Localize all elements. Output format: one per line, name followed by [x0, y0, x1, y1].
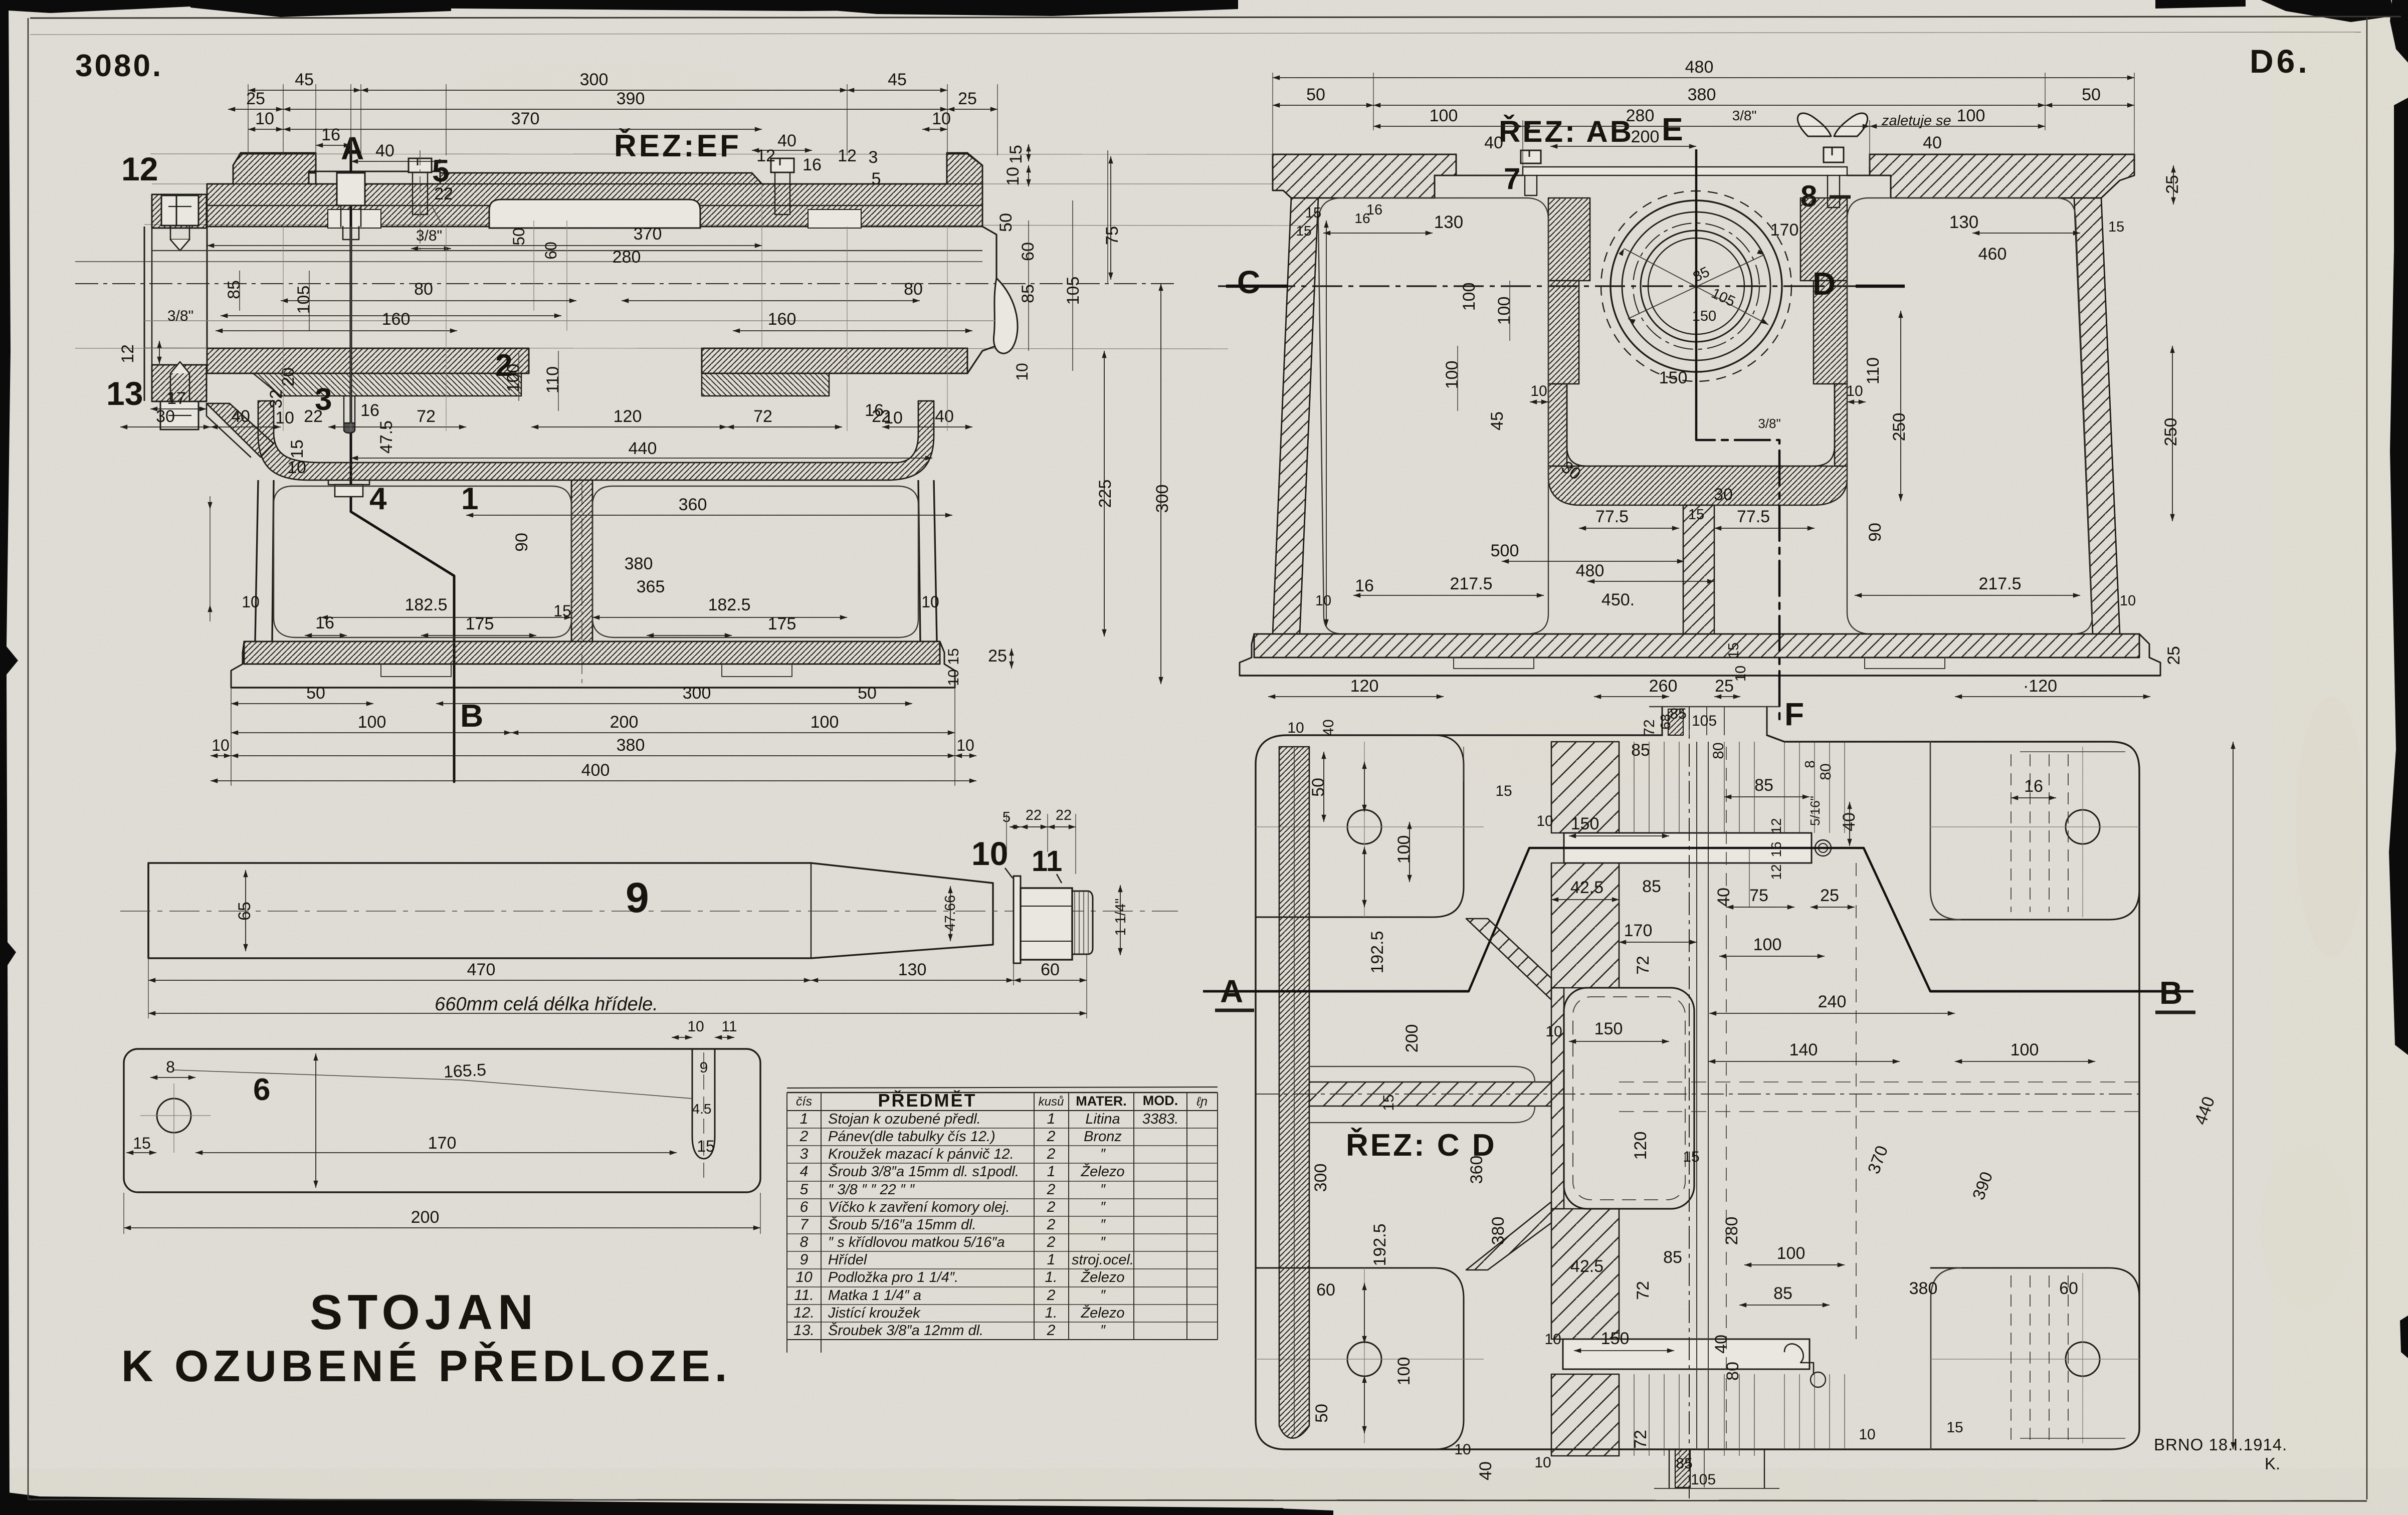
svg-text:16: 16 — [1768, 841, 1784, 857]
svg-text:C: C — [1237, 264, 1260, 300]
AB lid plate — [1523, 167, 1847, 175]
EF raised bosses — [233, 153, 316, 184]
svg-text:Železo: Železo — [1080, 1163, 1124, 1180]
svg-text:3/8": 3/8" — [167, 308, 193, 324]
AB cavities — [1318, 198, 1548, 634]
long construction lines — [150, 154, 1273, 154]
svg-text:7: 7 — [800, 1216, 809, 1233]
svg-text:8: 8 — [1802, 760, 1818, 768]
svg-text:140: 140 — [1789, 1040, 1818, 1059]
svg-text:370: 370 — [511, 109, 540, 128]
svg-text:10: 10 — [971, 835, 1008, 872]
svg-text:16: 16 — [802, 155, 822, 174]
svg-text:480: 480 — [1685, 58, 1714, 77]
svg-text:100: 100 — [1753, 935, 1782, 954]
svg-text:175: 175 — [768, 614, 796, 633]
svg-text:25: 25 — [246, 89, 265, 108]
svg-text:380: 380 — [1909, 1279, 1938, 1298]
svg-text:45: 45 — [295, 70, 314, 89]
svg-text:240: 240 — [1818, 992, 1847, 1011]
svg-text:40: 40 — [1484, 133, 1503, 152]
svg-text:85: 85 — [1642, 877, 1661, 896]
svg-text:110: 110 — [543, 366, 562, 393]
svg-text:50: 50 — [1306, 85, 1325, 104]
svg-text:Pánev(dle tabulky čís 12.): Pánev(dle tabulky čís 12.) — [828, 1129, 995, 1145]
svg-text:5/16": 5/16" — [1808, 796, 1823, 826]
svg-text:110: 110 — [1864, 357, 1883, 384]
svg-text:60: 60 — [1316, 1280, 1335, 1300]
svg-text:390: 390 — [617, 89, 645, 108]
svg-text:10: 10 — [287, 458, 306, 477]
EF dimensions — [248, 84, 249, 155]
svg-text:25: 25 — [2163, 175, 2182, 194]
svg-text:15: 15 — [1688, 507, 1704, 523]
svg-text:10: 10 — [1013, 363, 1031, 381]
paper stains — [2296, 697, 2366, 957]
AB base hatched — [1254, 634, 2139, 658]
svg-text:170: 170 — [1624, 921, 1653, 940]
scan black edges — [0, 0, 1238, 13]
svg-text:12: 12 — [756, 146, 775, 165]
svg-text:25: 25 — [988, 646, 1007, 666]
svg-text:182.5: 182.5 — [405, 595, 447, 614]
svg-text:10: 10 — [921, 593, 939, 611]
svg-text:42.5: 42.5 — [1570, 878, 1603, 897]
AB cap recess — [1456, 154, 1523, 175]
CD keyway bar top — [1564, 833, 1812, 863]
svg-text:60: 60 — [1041, 960, 1060, 979]
svg-text:150: 150 — [1659, 368, 1688, 387]
svg-text:1: 1 — [1047, 1163, 1056, 1180]
svg-text:25: 25 — [1715, 677, 1734, 696]
svg-text:11: 11 — [1032, 845, 1062, 878]
svg-text:8: 8 — [166, 1058, 175, 1076]
svg-text:16: 16 — [2024, 777, 2043, 796]
svg-text:10: 10 — [1846, 383, 1863, 399]
EF feet outline — [231, 641, 955, 688]
svg-text:192.5: 192.5 — [1368, 931, 1387, 973]
svg-text:1: 1 — [800, 1111, 809, 1127]
svg-text:10: 10 — [1536, 813, 1553, 829]
svg-text:7: 7 — [1504, 162, 1520, 195]
svg-text:85: 85 — [1019, 284, 1038, 303]
svg-text:PŘEDMĚT: PŘEDMĚT — [878, 1090, 976, 1111]
svg-text:12.: 12. — [793, 1305, 815, 1321]
svg-text:260: 260 — [1649, 677, 1678, 696]
svg-text:10: 10 — [242, 593, 260, 611]
svg-text:3: 3 — [869, 148, 878, 167]
svg-text:72: 72 — [1634, 1281, 1653, 1300]
EF centre rib hatched — [571, 480, 592, 641]
svg-text:16: 16 — [1354, 210, 1370, 226]
svg-text:10: 10 — [212, 736, 230, 754]
thread stub — [1072, 891, 1093, 954]
part 9 shaft — [148, 863, 993, 958]
svg-text:10: 10 — [1733, 666, 1749, 682]
AB right wall hatched — [2074, 198, 2120, 634]
svg-text:85: 85 — [1676, 1455, 1692, 1472]
EF legs (elevation, white) — [255, 480, 258, 641]
svg-text:175: 175 — [466, 614, 494, 633]
svg-text:100: 100 — [811, 713, 839, 732]
svg-text:100: 100 — [2011, 1040, 2039, 1059]
parts table — [787, 1087, 1218, 1088]
bolt 13 — [160, 401, 198, 429]
svg-text:Šroub 5/16″a 15mm dl.: Šroub 5/16″a 15mm dl. — [828, 1216, 976, 1233]
svg-text:360: 360 — [679, 495, 707, 514]
svg-text:30: 30 — [156, 407, 175, 426]
svg-text:12: 12 — [1768, 818, 1784, 833]
svg-text:10: 10 — [275, 408, 294, 427]
svg-text:12: 12 — [1768, 864, 1784, 880]
svg-text:15: 15 — [133, 1134, 151, 1152]
svg-text:130: 130 — [1949, 212, 1978, 232]
CD middle band hatched — [1551, 742, 1619, 833]
svg-text:192.5: 192.5 — [1370, 1223, 1389, 1266]
svg-text:40: 40 — [231, 407, 250, 426]
svg-text:30: 30 — [1714, 485, 1733, 504]
svg-text:25: 25 — [958, 89, 977, 108]
screw 5 right — [771, 158, 794, 172]
screw 4 under bowl — [328, 480, 369, 485]
svg-text:75: 75 — [1749, 886, 1768, 905]
svg-text:15: 15 — [1305, 205, 1321, 221]
funnel from flange 13 — [207, 403, 274, 457]
svg-text:9: 9 — [626, 874, 649, 921]
svg-text:13: 13 — [106, 375, 143, 412]
svg-text:4: 4 — [800, 1163, 809, 1180]
CD keyway bar bottom — [1563, 1339, 1810, 1369]
svg-text:10: 10 — [932, 109, 951, 128]
svg-text:250: 250 — [2161, 418, 2180, 447]
svg-text:3/8": 3/8" — [1758, 416, 1780, 431]
inner panels — [274, 486, 571, 637]
svg-text:2: 2 — [1047, 1234, 1056, 1250]
svg-text:″: ″ — [1100, 1199, 1106, 1215]
svg-text:77.5: 77.5 — [1595, 507, 1629, 526]
EF lower bearing plates hatched — [207, 348, 529, 373]
svg-text:460: 460 — [1978, 245, 2007, 264]
svg-text:Železo: Železo — [1080, 1269, 1124, 1285]
svg-text:440: 440 — [629, 439, 657, 458]
bolt 12 — [161, 195, 198, 226]
EF bottom flange hatched — [152, 365, 207, 401]
svg-text:F: F — [1784, 696, 1804, 732]
svg-text:9: 9 — [800, 1251, 809, 1268]
svg-text:100: 100 — [1957, 106, 1985, 125]
EF housing right end — [967, 227, 996, 373]
svg-text:15: 15 — [945, 648, 962, 665]
svg-text:150: 150 — [1601, 1329, 1630, 1348]
svg-text:4: 4 — [369, 482, 387, 516]
svg-text:1.: 1. — [1045, 1269, 1057, 1285]
svg-text:2: 2 — [1047, 1287, 1056, 1304]
svg-text:15: 15 — [697, 1137, 715, 1155]
screw 5 left — [409, 158, 432, 172]
svg-text:Litina: Litina — [1085, 1111, 1120, 1127]
svg-text:90: 90 — [1866, 523, 1885, 542]
svg-text:15: 15 — [1683, 1149, 1699, 1165]
svg-text:12: 12 — [118, 344, 137, 363]
EF top cover band hatched — [207, 154, 982, 227]
svg-text:Jistící kroužek: Jistící kroužek — [828, 1305, 921, 1321]
svg-text:Víčko k zavření komory olej.: Víčko k zavření komory olej. — [828, 1199, 1010, 1215]
svg-text:16: 16 — [321, 125, 340, 144]
svg-text:15: 15 — [1495, 783, 1512, 799]
AB pedestal hatched — [1683, 505, 1714, 634]
svg-text:″: ″ — [1100, 1146, 1106, 1162]
svg-text:″: ″ — [1100, 1217, 1106, 1233]
svg-text:15: 15 — [1726, 642, 1742, 659]
svg-text:130: 130 — [898, 960, 927, 979]
svg-text:60: 60 — [1019, 242, 1038, 261]
svg-text:2: 2 — [799, 1128, 809, 1145]
nut 11 — [1021, 888, 1072, 960]
svg-text:15: 15 — [288, 440, 307, 459]
svg-text:160: 160 — [382, 310, 411, 329]
svg-text:72: 72 — [753, 407, 772, 426]
AB top band hatched — [1273, 154, 1456, 198]
svg-text:182.5: 182.5 — [708, 595, 750, 614]
svg-text:300: 300 — [1153, 485, 1172, 513]
CD right pad dashed verticals — [2011, 754, 2012, 912]
svg-text:B: B — [460, 698, 483, 734]
CD outer outline — [1256, 735, 2139, 1449]
svg-text:15: 15 — [2108, 219, 2124, 235]
svg-text:280: 280 — [613, 248, 641, 267]
svg-text:22: 22 — [434, 184, 453, 203]
svg-text:1: 1 — [1047, 1111, 1056, 1127]
svg-text:120: 120 — [1631, 1132, 1650, 1160]
svg-text:68: 68 — [1658, 714, 1673, 729]
svg-text:8: 8 — [800, 1234, 809, 1250]
svg-text:217.5: 217.5 — [1978, 574, 2021, 593]
bearing cap dome (white) — [489, 199, 700, 228]
svg-text:45: 45 — [1488, 411, 1507, 430]
svg-text:660mm celá délka hřídele.: 660mm celá délka hřídele. — [435, 994, 658, 1015]
CD bottom boss — [1669, 1449, 1764, 1488]
svg-text:100: 100 — [1495, 297, 1514, 325]
svg-text:100: 100 — [358, 713, 386, 732]
svg-text:Šroubek 3/8″a 12mm dl.: Šroubek 3/8″a 12mm dl. — [828, 1322, 983, 1339]
svg-text:105: 105 — [1064, 277, 1083, 305]
svg-text:150: 150 — [1594, 1019, 1623, 1038]
svg-text:160: 160 — [768, 310, 796, 329]
part 6 hole — [157, 1099, 191, 1133]
svg-text:200: 200 — [1402, 1024, 1422, 1053]
svg-text:15: 15 — [1946, 1419, 1963, 1436]
svg-text:280: 280 — [1722, 1217, 1741, 1245]
svg-text:Matka 1 1/4″ a: Matka 1 1/4″ a — [828, 1287, 921, 1304]
ink teardrop — [993, 278, 1018, 353]
svg-text:4.5: 4.5 — [692, 1101, 712, 1117]
section line A-B — [350, 140, 352, 512]
oil pocket — [1567, 384, 1835, 466]
wing nut / screw 8 — [1824, 147, 1844, 162]
svg-text:16: 16 — [360, 401, 379, 420]
svg-text:500: 500 — [1491, 541, 1519, 560]
svg-text:50: 50 — [1312, 1404, 1331, 1423]
svg-text:200: 200 — [610, 713, 639, 732]
svg-text:100: 100 — [1394, 835, 1414, 864]
svg-text:10: 10 — [2120, 593, 2136, 609]
svg-text:85: 85 — [225, 280, 244, 299]
centre bolt A — [337, 173, 365, 205]
svg-text:15: 15 — [1296, 223, 1311, 239]
svg-text:K OZUBENÉ PŘEDLOZE.: K OZUBENÉ PŘEDLOZE. — [121, 1341, 731, 1391]
svg-text:2: 2 — [1047, 1146, 1056, 1162]
svg-text:85: 85 — [1663, 1248, 1682, 1267]
svg-text:40: 40 — [1476, 1461, 1495, 1480]
svg-text:80: 80 — [904, 280, 923, 299]
svg-text:1: 1 — [461, 482, 478, 516]
CD web band hatched (left) — [1309, 1082, 1551, 1106]
section E-F — [1695, 149, 1698, 423]
svg-text:2: 2 — [1047, 1128, 1056, 1145]
svg-text:2: 2 — [1047, 1216, 1056, 1233]
part 6 slot — [692, 1049, 715, 1159]
svg-text:MATER.: MATER. — [1076, 1094, 1127, 1109]
EF base hatched — [244, 641, 940, 664]
svg-text:105: 105 — [1692, 713, 1717, 729]
svg-text:3383.: 3383. — [1142, 1111, 1179, 1127]
svg-text:Stojan k ozubené předl.: Stojan k ozubené předl. — [828, 1111, 981, 1127]
CD left flange strip hatched — [1279, 747, 1309, 1438]
svg-text:10: 10 — [1530, 383, 1547, 399]
svg-text:72: 72 — [1641, 719, 1658, 736]
svg-text:300: 300 — [683, 684, 711, 703]
svg-text:200: 200 — [411, 1208, 440, 1227]
sheet ruled border — [30, 17, 2401, 18]
CD middle lid — [1564, 988, 1694, 1209]
CD web fillet outlines — [1309, 1066, 1535, 1082]
svg-text:90: 90 — [512, 533, 531, 552]
svg-text:60: 60 — [542, 242, 560, 260]
CD bolt holes + centrelines — [1347, 810, 1381, 844]
svg-text:Šroub 3/8″a 15mm dl. s1podl.: Šroub 3/8″a 15mm dl. s1podl. — [828, 1163, 1019, 1180]
svg-text:40: 40 — [935, 407, 954, 426]
svg-text:15: 15 — [1380, 1094, 1397, 1111]
svg-text:80: 80 — [1818, 763, 1834, 780]
svg-text:2: 2 — [1047, 1322, 1056, 1339]
svg-text:470: 470 — [467, 960, 496, 979]
svg-text:47.5: 47.5 — [377, 420, 396, 454]
svg-text:3/8": 3/8" — [1732, 108, 1757, 123]
svg-text:40: 40 — [1840, 812, 1859, 831]
svg-text:″: ″ — [1100, 1234, 1106, 1250]
svg-text:3080.: 3080. — [75, 49, 163, 83]
svg-text:15: 15 — [1007, 145, 1026, 164]
svg-text:120: 120 — [614, 407, 642, 426]
svg-text:150: 150 — [1571, 814, 1599, 833]
svg-text:″: ″ — [1100, 1323, 1106, 1339]
svg-text:10: 10 — [255, 109, 274, 128]
svg-text:100: 100 — [1443, 361, 1462, 389]
svg-text:217.5: 217.5 — [1450, 574, 1492, 593]
bore circles — [1601, 191, 1791, 381]
svg-text:75: 75 — [1103, 226, 1122, 245]
svg-text:22: 22 — [1056, 807, 1072, 823]
svg-text:280: 280 — [1626, 106, 1655, 125]
svg-text:170: 170 — [1770, 221, 1799, 240]
CD centre + dashed lines — [1689, 707, 1690, 1498]
svg-text:1.: 1. — [1045, 1305, 1057, 1321]
svg-text:16: 16 — [1355, 576, 1374, 595]
svg-text:BRNO 18.I.1914.: BRNO 18.I.1914. — [2154, 1435, 2287, 1454]
svg-text:10: 10 — [1454, 1441, 1471, 1458]
svg-text:105: 105 — [294, 286, 313, 314]
svg-text:400: 400 — [581, 761, 610, 780]
svg-text:300: 300 — [1311, 1164, 1330, 1192]
svg-text:22: 22 — [304, 407, 323, 426]
svg-text:9: 9 — [700, 1059, 708, 1076]
svg-text:A: A — [1220, 973, 1243, 1009]
svg-text:stroj.ocel.: stroj.ocel. — [1072, 1252, 1134, 1268]
svg-text:100: 100 — [1430, 106, 1458, 125]
svg-text:D: D — [1813, 266, 1836, 302]
svg-text:16: 16 — [315, 613, 334, 632]
CD pads — [1256, 735, 1464, 917]
AB bore boss hatched — [1548, 198, 1590, 281]
svg-text:130: 130 — [1434, 212, 1463, 232]
svg-text:40: 40 — [1714, 888, 1733, 907]
svg-text:480: 480 — [1576, 561, 1604, 580]
svg-text:5: 5 — [432, 154, 449, 188]
svg-text:65: 65 — [235, 902, 254, 921]
svg-text:12: 12 — [838, 146, 857, 165]
svg-text:170: 170 — [428, 1134, 457, 1153]
svg-text:370: 370 — [634, 225, 662, 244]
svg-text:450.: 450. — [1601, 590, 1635, 609]
svg-text:čís: čís — [796, 1095, 812, 1109]
AB dims — [1273, 77, 2134, 78]
svg-text:40: 40 — [1712, 1335, 1731, 1354]
svg-text:100: 100 — [504, 364, 523, 392]
svg-text:20: 20 — [279, 367, 298, 386]
svg-text:200: 200 — [1631, 127, 1660, 146]
svg-text:1: 1 — [1047, 1251, 1056, 1268]
svg-text:3/8": 3/8" — [416, 228, 442, 244]
svg-text:120: 120 — [1350, 677, 1379, 696]
svg-text:50: 50 — [1309, 778, 1328, 797]
svg-text:2: 2 — [1047, 1199, 1056, 1215]
svg-text:″ 3/8 ″ ″ 22 ″ ″: ″ 3/8 ″ ″ 22 ″ ″ — [828, 1182, 915, 1198]
svg-text:5: 5 — [800, 1181, 809, 1198]
svg-text:K.: K. — [2265, 1454, 2280, 1473]
washer 10 — [1014, 876, 1021, 963]
svg-text:5: 5 — [872, 169, 881, 188]
svg-text:D6.: D6. — [2250, 43, 2310, 80]
svg-text:380: 380 — [1489, 1217, 1508, 1245]
svg-text:10: 10 — [945, 669, 962, 686]
svg-text:365: 365 — [637, 577, 665, 596]
svg-text:″ s křídlovou matkou 5/16″a: ″ s křídlovou matkou 5/16″a — [828, 1234, 1005, 1250]
svg-text:10: 10 — [1287, 720, 1304, 736]
svg-text:100: 100 — [1777, 1244, 1805, 1263]
svg-text:″: ″ — [1100, 1182, 1106, 1198]
svg-text:11: 11 — [721, 1018, 737, 1035]
svg-text:ŘEZ: AB: ŘEZ: AB — [1499, 115, 1634, 148]
svg-text:10: 10 — [956, 736, 974, 754]
svg-text:50: 50 — [510, 228, 528, 246]
svg-text:10: 10 — [1315, 593, 1331, 609]
svg-text:60: 60 — [2059, 1279, 2078, 1298]
svg-text:380: 380 — [1688, 85, 1716, 104]
svg-text:kusů: kusů — [1039, 1095, 1064, 1109]
svg-text:10: 10 — [687, 1018, 704, 1035]
svg-text:STOJAN: STOJAN — [310, 1284, 538, 1340]
svg-text:40: 40 — [375, 141, 394, 160]
